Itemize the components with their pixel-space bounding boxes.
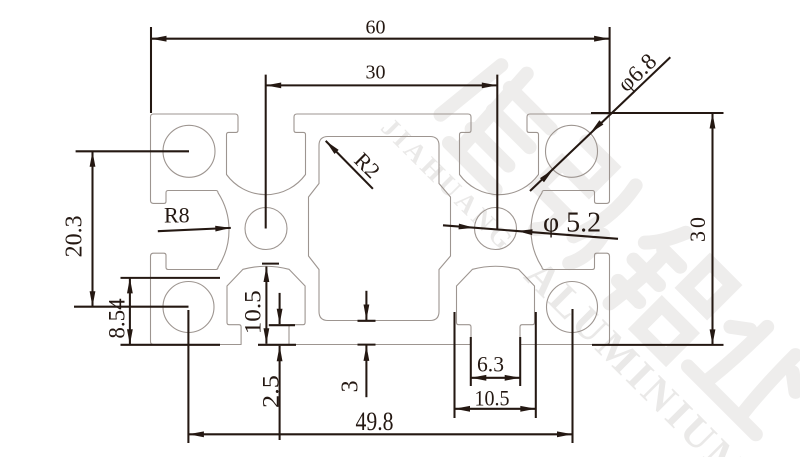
svg-text:10.5: 10.5 [475, 386, 510, 411]
dim 6.3 extension line right [519, 337, 521, 386]
dim 30 top extension line right [496, 75, 498, 229]
dim 2.5 tick upper [269, 324, 295, 326]
profile outline group [151, 114, 610, 345]
dim 60 extension line left [150, 27, 152, 113]
hole middle-left [245, 208, 287, 250]
watermark character 3 [597, 217, 738, 358]
svg-text:20.3: 20.3 [62, 215, 88, 257]
dim 30 top extension line left [265, 75, 267, 229]
dim 49.8 line [188, 433, 572, 435]
dim 20.3 extension line top [76, 150, 189, 152]
hole top-right [546, 125, 598, 177]
dim 8.54 extension line bottom [121, 344, 221, 346]
dim 6.3 line [471, 377, 520, 379]
svg-text:3: 3 [338, 380, 364, 392]
watermark character 4 [688, 307, 800, 434]
svg-text:60: 60 [366, 17, 386, 39]
dim 10.5 horizontal extension line right [535, 312, 537, 418]
svg-text:φ 5.2: φ 5.2 [543, 208, 601, 239]
svg-text:φ6.8: φ6.8 [613, 48, 662, 96]
svg-text:R8: R8 [164, 203, 190, 228]
phi6.8 arrow upper [588, 120, 603, 135]
svg-text:8.54: 8.54 [105, 298, 130, 339]
hole top-left [163, 125, 215, 177]
dim 8.54 extension line top [121, 277, 221, 279]
hole middle-right [475, 208, 517, 250]
watermark character 1 [431, 51, 570, 190]
phi5.2 arrow left [459, 224, 475, 231]
dim 30 right extension line top [591, 112, 724, 114]
dim 3 tick upper [358, 320, 376, 322]
dim 30 right line [711, 113, 713, 345]
svg-text:6.3: 6.3 [477, 352, 504, 377]
hole bottom-left [163, 282, 214, 333]
dim 60 extension line right [609, 27, 611, 114]
dim 3 tick lower [358, 344, 376, 346]
dim 60 line [151, 38, 610, 40]
dim 2.5 upper arrow line [279, 293, 281, 324]
svg-text:10.5: 10.5 [241, 290, 266, 334]
profile outer boundary with T-slots [151, 114, 610, 345]
R2 leader line [326, 141, 373, 189]
dim 30 right extension line bottom [592, 344, 724, 346]
dim 30 top line [266, 84, 498, 86]
dim 2.5 lower arrow line [279, 346, 281, 440]
central square cavity R2 [309, 137, 451, 321]
dim 20.3 line [91, 151, 93, 306]
dim 49.8 extension line right [571, 309, 573, 443]
watermark [370, 28, 800, 457]
dim 8.54 line [129, 278, 131, 345]
svg-text:2.5: 2.5 [259, 375, 284, 408]
R8 leader line [158, 228, 231, 231]
phi6.8 arrow lower [540, 167, 555, 182]
dim 49.8 extension line left [187, 310, 189, 443]
watermark character 2 [515, 137, 645, 267]
svg-text:R2: R2 [349, 147, 385, 183]
dim 2.5 tick lower [258, 344, 296, 346]
dim 10.5 vertical line in slot [265, 267, 267, 344]
dim 10.5 horizontal extension line left [453, 312, 455, 418]
dim 3 lower arrow line [365, 345, 367, 397]
crown tick [262, 263, 279, 265]
standalone arrowheads [459, 120, 604, 235]
dim 10.5 horizontal line [455, 408, 536, 410]
svg-text:30: 30 [366, 62, 386, 84]
dim 6.3 extension line left [470, 337, 472, 386]
dimension texts [62, 17, 711, 437]
dim 3 upper arrow line [365, 291, 367, 320]
dimension annotations [74, 27, 724, 443]
phi5.2 arrow right [517, 228, 533, 235]
svg-text:49.8: 49.8 [356, 407, 394, 436]
dim 20.3 extension line bottom [74, 306, 189, 308]
dim phi6.8 leader line [530, 57, 670, 191]
hole bottom-right [547, 282, 598, 333]
dim phi5.2 leader line [443, 225, 618, 239]
